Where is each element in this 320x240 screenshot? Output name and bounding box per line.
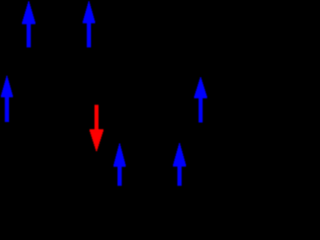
blue up arrow (majority spin) A4 right-edge <box>194 77 207 122</box>
blue up arrow (majority spin) A6 bottom-mid <box>114 144 126 186</box>
blue up arrow (majority spin) A7 bottom-right <box>173 143 186 186</box>
blue up arrow (majority spin) A2 top-middle <box>83 1 95 47</box>
blue up arrow (majority spin) A3 left-edge <box>1 76 13 122</box>
red down arrow (minority spin) A5 center-down <box>90 105 104 151</box>
blue up arrow (majority spin) A1 top-left <box>22 1 35 47</box>
